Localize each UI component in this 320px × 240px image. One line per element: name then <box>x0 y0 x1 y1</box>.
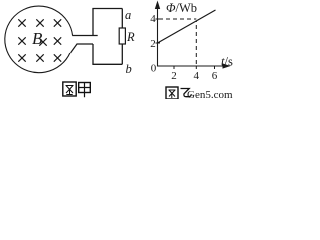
svg-text:2: 2 <box>150 38 156 50</box>
svg-text:Gen5.com: Gen5.com <box>187 89 233 99</box>
y tick 4 <box>156 18 161 20</box>
x tick 4 <box>195 66 197 69</box>
dashed horizontal at Phi=4 <box>159 18 196 20</box>
wire loop left upper segment <box>92 9 94 36</box>
flux cross x11 <box>18 19 25 26</box>
svg-text:Φ/Wb: Φ/Wb <box>166 1 197 15</box>
wire loop top <box>92 8 122 10</box>
flux cross x13 <box>54 19 61 26</box>
flux cross x31 <box>18 54 25 61</box>
flux cross x22 (behind B) <box>39 38 46 45</box>
caption 图甲 (hand-drawn glyphs) <box>63 82 91 97</box>
flux cross x23 <box>54 37 61 44</box>
svg-text:b: b <box>126 62 132 76</box>
svg-text:4: 4 <box>194 70 200 82</box>
wire bottom lead <box>71 44 94 53</box>
graph x-axis <box>158 65 228 67</box>
flux cross x32 <box>36 54 43 61</box>
resistor R box <box>119 28 125 44</box>
wire loop right lower (node b) <box>121 44 123 64</box>
svg-text:2: 2 <box>171 70 177 82</box>
flux cross x12 <box>36 19 43 26</box>
x tick 2 <box>173 66 175 69</box>
y tick 2 <box>156 42 161 44</box>
wire loop left lower segment <box>92 44 94 64</box>
x-axis arrowhead <box>223 63 231 68</box>
flux cross x21 <box>18 37 25 44</box>
dashed vertical at t=4 <box>195 21 197 67</box>
svg-text:0: 0 <box>151 63 157 75</box>
x tick 6 <box>214 66 216 69</box>
svg-text:t/s: t/s <box>221 55 233 69</box>
svg-text:R: R <box>126 30 135 44</box>
flux cross x33 <box>54 54 61 61</box>
svg-text:6: 6 <box>212 70 218 82</box>
graph y-axis <box>157 3 159 67</box>
field boundary circle (coil region) <box>5 6 73 73</box>
flux line (Phi-t) <box>158 10 216 43</box>
svg-text:B: B <box>32 29 43 48</box>
svg-text:a: a <box>125 8 131 22</box>
wire loop right upper (node a) <box>121 9 123 29</box>
svg-text:4: 4 <box>150 13 156 25</box>
wire top lead <box>72 35 97 37</box>
caption 图乙 (hand-drawn glyphs) <box>166 87 191 99</box>
y-axis arrowhead <box>155 1 160 10</box>
wire loop bottom <box>92 63 122 65</box>
